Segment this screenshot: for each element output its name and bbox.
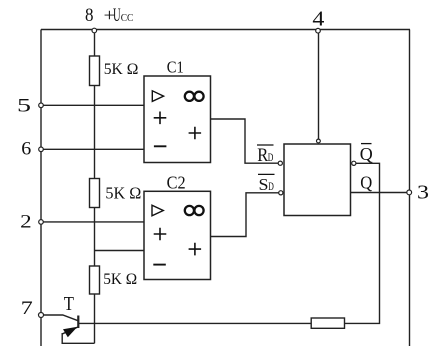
svg-text:S: S — [259, 175, 269, 194]
svg-text:7: 7 — [21, 299, 33, 319]
svg-text:5K Ω: 5K Ω — [104, 61, 139, 78]
svg-text:CC: CC — [121, 12, 134, 24]
svg-text:3: 3 — [417, 182, 429, 204]
svg-text:4: 4 — [312, 7, 325, 31]
svg-text:Q: Q — [360, 144, 373, 164]
svg-text:T: T — [64, 293, 75, 315]
svg-text:5: 5 — [17, 96, 31, 116]
svg-text:C1: C1 — [167, 58, 184, 77]
svg-text:U: U — [113, 5, 121, 26]
svg-text:6: 6 — [21, 139, 31, 160]
svg-text:D: D — [268, 150, 274, 164]
svg-text:2: 2 — [20, 213, 32, 233]
svg-text:C2: C2 — [167, 173, 186, 193]
svg-text:8: 8 — [85, 5, 94, 26]
svg-text:5K Ω: 5K Ω — [103, 271, 137, 288]
svg-text:5K Ω: 5K Ω — [105, 183, 141, 202]
svg-text:R: R — [257, 145, 268, 166]
svg-text:D: D — [268, 179, 274, 193]
svg-text:Q: Q — [360, 173, 372, 193]
